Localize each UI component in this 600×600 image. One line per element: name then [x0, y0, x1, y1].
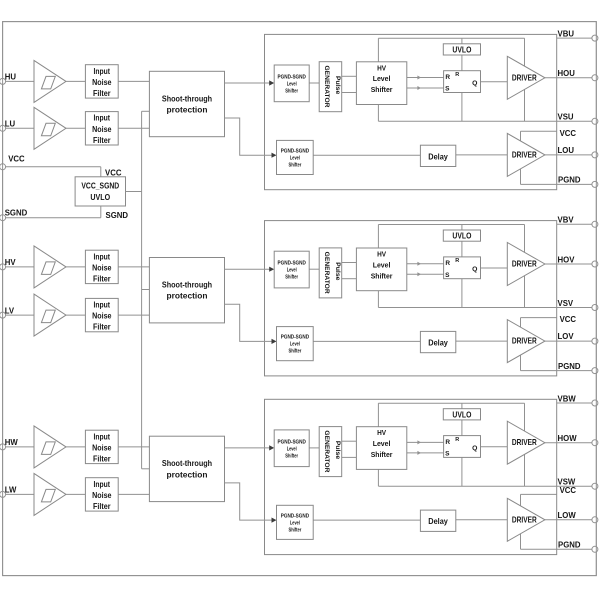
svg-text:VCC: VCC [560, 129, 577, 138]
wire VBV well top rail [378, 224, 524, 226]
wire pulse generator to HV shifter reset [342, 92, 357, 94]
wire LW to noise filter [66, 493, 85, 495]
wire LU filter to shoot-through [118, 127, 149, 129]
UVLO high side [443, 409, 480, 420]
svg-text:DRIVER: DRIVER [512, 514, 537, 524]
svg-text:Shoot-through: Shoot-through [162, 94, 212, 103]
svg-text:Level: Level [373, 260, 391, 269]
svg-text:VCC: VCC [560, 486, 577, 495]
svg-text:R: R [455, 72, 459, 78]
svg-text:Pulse: Pulse [334, 262, 341, 281]
wire UVLO output [126, 191, 142, 193]
wire delay to driver low [456, 154, 508, 156]
svg-text:HU: HU [5, 73, 17, 82]
pin VBU [592, 35, 598, 41]
wire level shifter to pulse generator [309, 268, 319, 270]
wire HU filter to shoot-through [118, 80, 149, 82]
schmitt trigger LV [34, 294, 66, 336]
wire HV shifter to well top [377, 38, 379, 121]
svg-text:Level: Level [287, 81, 297, 87]
wire HV shifter to well top [377, 403, 379, 486]
wire PGND rail channel [521, 548, 593, 550]
svg-text:Shifter: Shifter [285, 275, 298, 281]
wire VBU well top rail [378, 37, 524, 39]
wire VSU rail [378, 120, 592, 122]
wire LV filter to shoot-through [118, 314, 149, 316]
wire driver low VCC/PGND bracket [520, 131, 522, 184]
HV level shifter [356, 248, 406, 291]
svg-text:Shifter: Shifter [371, 271, 393, 280]
delay block [420, 331, 455, 352]
RS latch [444, 71, 481, 93]
driver low side [507, 133, 545, 176]
svg-text:Shifter: Shifter [289, 163, 302, 169]
svg-text:HV: HV [377, 428, 386, 437]
wire PGND rail channel [521, 183, 593, 185]
wire latch Q to driver [481, 81, 508, 83]
svg-text:Level: Level [287, 446, 297, 452]
wire UVLO-latch vertical [461, 225, 463, 308]
svg-text:Noise: Noise [92, 263, 112, 272]
wire HV shifter to latch S [407, 452, 444, 454]
pin PGND V [592, 368, 598, 374]
svg-text:Filter: Filter [93, 502, 111, 511]
pin PGND W [592, 546, 598, 552]
PGND-SGND level shifter high side [274, 65, 309, 102]
svg-text:Level: Level [290, 156, 300, 162]
wire HV shifter to latch S [407, 87, 444, 89]
wire VCC input [3, 166, 101, 168]
svg-text:LU: LU [5, 120, 16, 129]
svg-text:GENERATOR: GENERATOR [323, 66, 330, 108]
wire SGND input [3, 217, 101, 219]
wire LW filter to shoot-through [118, 493, 149, 495]
svg-text:Level: Level [287, 268, 297, 274]
svg-text:SGND: SGND [106, 211, 129, 220]
pin LOU [592, 152, 598, 158]
svg-text:R: R [445, 74, 450, 81]
svg-text:Level: Level [373, 439, 391, 448]
svg-text:VCC: VCC [8, 155, 25, 164]
svg-text:PGND-SGND: PGND-SGND [278, 439, 306, 445]
wire VBV to pin [557, 223, 592, 225]
wire VSV rail [378, 307, 592, 309]
wire pulse generator to HV shifter reset [342, 278, 357, 280]
svg-text:VCC_SGND: VCC_SGND [81, 182, 119, 191]
UVLO high side [443, 44, 480, 55]
svg-text:PGND: PGND [558, 176, 581, 185]
wire HV shifter to latch R [407, 441, 444, 443]
wire UVLO rail vertical [141, 111, 143, 469]
svg-text:Filter: Filter [93, 136, 111, 145]
wire UVLO-latch vertical [461, 38, 463, 121]
wire VCC drop to UVLO [100, 167, 102, 177]
wire PGND rail channel [521, 370, 593, 372]
wire delay to driver low [456, 519, 508, 521]
svg-text:Filter: Filter [93, 89, 111, 98]
PGND-SGND level shifter high side [274, 251, 309, 288]
HV level shifter [356, 62, 406, 105]
svg-text:HOW: HOW [558, 434, 578, 443]
svg-text:PGND-SGND: PGND-SGND [278, 74, 306, 80]
wire VSW rail [378, 485, 592, 487]
svg-text:LW: LW [5, 486, 17, 495]
svg-text:R: R [455, 437, 459, 443]
svg-text:Input: Input [94, 252, 111, 261]
svg-text:Filter: Filter [93, 275, 111, 284]
input noise filter HV [85, 250, 118, 283]
schmitt trigger HU [34, 60, 66, 102]
svg-text:Filter: Filter [93, 323, 111, 332]
wire shoot-through to delay path [225, 483, 273, 520]
wire driver low to LOU pin [545, 154, 592, 156]
pin HU [0, 78, 6, 84]
wire level shifter to pulse generator [309, 82, 319, 84]
input noise filter HW [85, 430, 118, 463]
svg-text:LOV: LOV [558, 332, 575, 341]
wire HV input [3, 266, 34, 268]
svg-text:HV: HV [377, 63, 386, 72]
svg-text:Noise: Noise [92, 125, 112, 134]
svg-text:Filter: Filter [93, 455, 111, 464]
shoot-through protection W [149, 436, 224, 501]
wire LU input [3, 127, 34, 129]
svg-text:LV: LV [5, 306, 15, 315]
wire pulse generator to HV shifter set [342, 75, 357, 77]
wire level shifter to pulse generator [309, 447, 319, 449]
input noise filter LU [85, 112, 118, 145]
wire VBW well top rail [378, 402, 524, 404]
svg-text:HV: HV [5, 258, 17, 267]
wire HV shifter to well top [377, 225, 379, 308]
svg-text:HV: HV [377, 250, 386, 259]
svg-text:Input: Input [94, 480, 111, 489]
wire driver VB/VS vertical [524, 225, 526, 308]
svg-text:VSV: VSV [558, 299, 574, 308]
svg-text:HW: HW [5, 438, 19, 447]
driver low side [507, 320, 545, 363]
svg-text:Input: Input [94, 301, 111, 310]
svg-text:DRIVER: DRIVER [512, 259, 537, 269]
svg-text:VBU: VBU [558, 29, 575, 38]
input noise filter HU [85, 65, 118, 98]
input noise filter LW [85, 478, 118, 511]
wire level shifter low to delay [313, 519, 420, 521]
wire latch Q to driver [481, 446, 508, 448]
svg-text:Shifter: Shifter [371, 450, 393, 459]
svg-text:LOW: LOW [558, 511, 577, 520]
wire HU input [3, 80, 34, 82]
svg-text:Shifter: Shifter [289, 349, 302, 355]
RS latch [444, 436, 481, 458]
schmitt trigger HV [34, 246, 66, 288]
wire HW input [3, 446, 34, 448]
svg-text:Shifter: Shifter [371, 85, 393, 94]
svg-text:protection: protection [167, 105, 208, 114]
pulse generator [319, 62, 342, 112]
channel block W [265, 399, 557, 554]
wire level shifter low to delay [313, 154, 420, 156]
svg-text:Delay: Delay [428, 516, 448, 526]
pin VBW [592, 400, 598, 406]
pin VSW [592, 483, 598, 489]
pin VSV [592, 305, 598, 311]
pin VSU [592, 118, 598, 124]
pin LOW [592, 517, 598, 523]
pulse generator [319, 427, 342, 477]
wire pulse generator to HV shifter set [342, 262, 357, 264]
pin VBV [592, 221, 598, 227]
svg-text:HOU: HOU [558, 69, 576, 78]
svg-text:Q: Q [472, 445, 477, 452]
wire HW filter to shoot-through [118, 446, 149, 448]
driver low side [507, 498, 545, 541]
svg-text:SGND: SGND [5, 209, 28, 218]
svg-text:Noise: Noise [92, 491, 112, 500]
wire LW input [3, 493, 34, 495]
pulse generator [319, 248, 342, 298]
svg-text:Noise: Noise [92, 443, 112, 452]
svg-text:S: S [445, 86, 450, 93]
wire shoot-through to level shifter high [225, 268, 271, 270]
driver high side [507, 243, 545, 286]
svg-text:protection: protection [167, 470, 208, 479]
svg-text:DRIVER: DRIVER [512, 437, 537, 447]
delay block [420, 510, 455, 531]
svg-text:Pulse: Pulse [334, 441, 341, 460]
wire VCC rail channel [521, 317, 557, 319]
driver high side [507, 56, 545, 99]
svg-text:Shifter: Shifter [285, 453, 298, 459]
svg-text:Input: Input [94, 432, 111, 441]
wire driver low VCC/PGND bracket [520, 318, 522, 371]
wire driver low VCC/PGND bracket [520, 494, 522, 549]
wire driver VB/VS vertical [524, 38, 526, 121]
svg-text:Level: Level [290, 520, 300, 526]
wire VCC rail channel [521, 493, 557, 495]
wire shoot-through to level shifter high [225, 82, 271, 84]
wire LV to noise filter [66, 314, 85, 316]
HV level shifter [356, 427, 406, 470]
wire HU to noise filter [66, 80, 85, 82]
PGND-SGND level shifter low side [277, 140, 314, 174]
wire SGND rise to UVLO [100, 206, 102, 218]
wire HV to noise filter [66, 266, 85, 268]
svg-text:UVLO: UVLO [452, 410, 471, 419]
svg-text:Pulse: Pulse [334, 76, 341, 95]
svg-text:GENERATOR: GENERATOR [323, 252, 330, 294]
PGND-SGND level shifter low side [277, 505, 314, 539]
svg-text:PGND-SGND: PGND-SGND [281, 149, 309, 155]
pin VCC [0, 164, 6, 170]
VCC_SGND UVLO block [75, 177, 125, 206]
PGND-SGND level shifter low side [277, 327, 314, 361]
pin LOV [592, 338, 598, 344]
delay block [420, 145, 455, 166]
wire driver to HOW pin [545, 442, 592, 444]
schmitt trigger HW [34, 426, 66, 468]
wire latch Q to driver [481, 267, 508, 269]
svg-text:S: S [445, 272, 450, 279]
svg-text:Shifter: Shifter [289, 527, 302, 533]
pin PGND U [592, 181, 598, 187]
svg-text:VBW: VBW [558, 394, 577, 403]
pin HOU [592, 75, 598, 81]
wire VCC rail channel [521, 130, 557, 132]
wire shoot-through to level shifter high [225, 447, 271, 449]
svg-text:S: S [445, 451, 450, 458]
pin LV [0, 312, 6, 318]
wire LU to noise filter [66, 127, 85, 129]
svg-text:PGND-SGND: PGND-SGND [281, 335, 309, 341]
svg-text:Level: Level [290, 342, 300, 348]
svg-text:UVLO: UVLO [90, 193, 110, 202]
svg-text:protection: protection [167, 292, 208, 301]
wire delay to driver low [456, 340, 508, 342]
svg-text:Q: Q [472, 80, 477, 87]
svg-text:PGND-SGND: PGND-SGND [281, 513, 309, 519]
wire driver to HOU pin [545, 77, 592, 79]
svg-text:DRIVER: DRIVER [512, 336, 537, 346]
svg-text:VBV: VBV [558, 216, 575, 225]
svg-text:R: R [455, 258, 459, 264]
svg-text:R: R [445, 439, 450, 446]
wire HV shifter to latch R [407, 263, 444, 265]
svg-text:UVLO: UVLO [452, 232, 471, 241]
svg-text:Noise: Noise [92, 312, 112, 321]
wire driver low to LOW pin [545, 519, 592, 521]
pin LU [0, 125, 6, 131]
wire driver to HOV pin [545, 263, 592, 265]
wire shoot-through to delay path [225, 304, 273, 341]
svg-text:PGND: PGND [558, 541, 581, 550]
svg-text:Level: Level [373, 74, 391, 83]
svg-text:LOU: LOU [558, 146, 575, 155]
svg-text:Shoot-through: Shoot-through [162, 459, 212, 468]
pin LW [0, 491, 6, 497]
wire rail tap V [142, 289, 150, 291]
wire driver VB/VS vertical [524, 403, 526, 486]
wire LV input [3, 314, 34, 316]
svg-text:R: R [445, 260, 450, 267]
wire VBW to pin [557, 402, 592, 404]
svg-text:Shifter: Shifter [285, 88, 298, 94]
svg-text:Shoot-through: Shoot-through [162, 281, 212, 290]
svg-text:Delay: Delay [428, 338, 448, 348]
svg-text:VCC: VCC [560, 315, 577, 324]
pin HW [0, 444, 6, 450]
pin HOV [592, 261, 598, 267]
RS latch [444, 257, 481, 279]
wire HV shifter to latch R [407, 77, 444, 79]
svg-text:Input: Input [94, 114, 111, 123]
wire HW to noise filter [66, 446, 85, 448]
wire rail tap U [142, 110, 150, 112]
svg-text:GENERATOR: GENERATOR [323, 430, 330, 472]
pin SGND [0, 215, 6, 221]
input noise filter LV [85, 298, 118, 331]
svg-text:Input: Input [94, 67, 111, 76]
svg-text:PGND-SGND: PGND-SGND [278, 261, 306, 267]
driver high side [507, 421, 545, 464]
schmitt trigger LW [34, 473, 66, 515]
svg-text:HOV: HOV [558, 255, 576, 264]
svg-text:Noise: Noise [92, 78, 112, 87]
shoot-through protection U [149, 71, 224, 136]
channel block V [265, 221, 557, 376]
schmitt trigger LU [34, 107, 66, 149]
pin HV [0, 264, 6, 270]
pin HOW [592, 440, 598, 446]
wire level shifter low to delay [313, 340, 420, 342]
channel block U [265, 34, 557, 189]
shoot-through protection V [149, 258, 224, 323]
wire driver low to LOV pin [545, 340, 592, 342]
wire HV filter to shoot-through [118, 266, 149, 268]
wire rail tap W [142, 468, 150, 470]
svg-text:Delay: Delay [428, 151, 448, 161]
wire VBU to pin [557, 37, 592, 39]
wire pulse generator to HV shifter set [342, 440, 357, 442]
PGND-SGND level shifter high side [274, 430, 309, 467]
svg-text:DRIVER: DRIVER [512, 72, 537, 82]
wire UVLO-latch vertical [461, 403, 463, 486]
svg-text:VSU: VSU [558, 113, 574, 122]
svg-text:UVLO: UVLO [452, 45, 471, 54]
svg-text:Q: Q [472, 266, 477, 273]
UVLO high side [443, 230, 480, 241]
svg-text:PGND: PGND [558, 362, 581, 371]
wire HV shifter to latch S [407, 273, 444, 275]
svg-text:DRIVER: DRIVER [512, 149, 537, 159]
wire pulse generator to HV shifter reset [342, 456, 357, 458]
wire shoot-through to delay path [225, 118, 273, 155]
